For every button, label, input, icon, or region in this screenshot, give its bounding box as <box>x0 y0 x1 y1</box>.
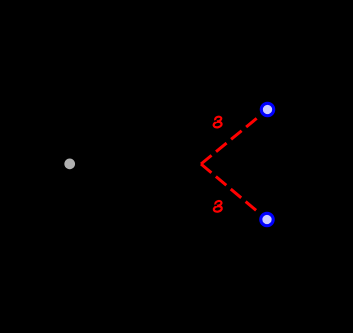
lower blue point <box>261 213 273 225</box>
dashed segment s (vertex to upper blue point) <box>201 117 258 164</box>
gray point (observation point) <box>64 159 75 170</box>
dashed segment s (vertex to lower blue point) <box>201 164 256 211</box>
label s (upper segment) <box>213 116 222 128</box>
upper blue point <box>261 103 273 115</box>
label s (lower segment) <box>213 200 222 212</box>
